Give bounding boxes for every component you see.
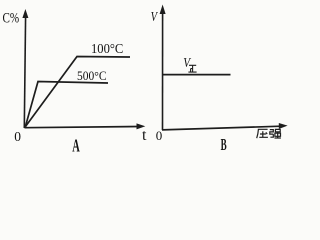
svg-text:500°C: 500°C (77, 69, 107, 84)
left chart x-axis (25, 127, 140, 128)
right chart equilibrium rate line (163, 74, 231, 76)
svg-text:t: t (142, 127, 147, 144)
right chart pressure label ya glyph (257, 129, 268, 138)
left chart y-axis (24, 15, 25, 128)
right chart y-axis (162, 12, 164, 130)
svg-text:A: A (72, 137, 80, 153)
left chart 100C curve (25, 57, 130, 127)
left chart 500C curve (25, 82, 108, 127)
right chart x-axis arrowhead (279, 123, 288, 129)
left chart y-axis arrowhead (22, 9, 28, 18)
svg-text:0: 0 (156, 128, 163, 143)
right chart zheng subscript glyph (188, 65, 196, 72)
left chart x-axis arrowhead (137, 123, 146, 129)
svg-text:C%: C% (3, 9, 20, 26)
svg-text:V: V (151, 8, 159, 24)
right chart y-axis arrowhead (160, 5, 166, 15)
svg-text:100°C: 100°C (91, 41, 123, 57)
svg-text:V: V (183, 55, 191, 70)
right chart pressure label qiang glyph (270, 129, 281, 138)
right chart x-axis (162, 126, 281, 130)
svg-text:B: B (221, 135, 227, 153)
svg-text:0: 0 (14, 129, 21, 144)
